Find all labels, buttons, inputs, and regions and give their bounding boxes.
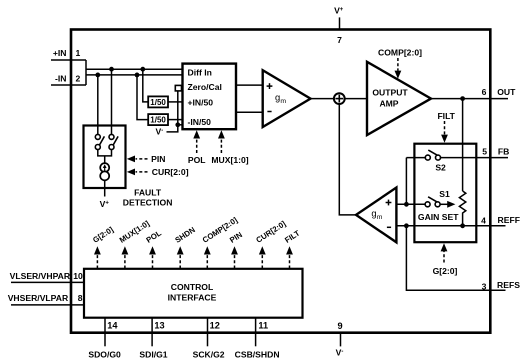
svg-text:Zero/Cal: Zero/Cal [188, 82, 222, 92]
svg-text:-IN/50: -IN/50 [188, 117, 212, 127]
svg-text:10: 10 [73, 271, 83, 281]
wire feedback down [462, 99, 464, 191]
current source I1 [100, 163, 109, 180]
svg-text:G[2:0]: G[2:0] [433, 266, 458, 276]
svg-text:11: 11 [258, 321, 268, 331]
svg-text:Diff In: Diff In [188, 68, 212, 78]
svg-text:7: 7 [337, 35, 342, 45]
svg-text:GAIN SET: GAIN SET [418, 212, 459, 222]
svg-text:COMP[2:0]: COMP[2:0] [378, 48, 422, 58]
op-amp gm1 [263, 70, 311, 127]
svg-text:PIN: PIN [151, 154, 165, 164]
wire V- stub into block [178, 124, 183, 126]
mux block Diff In / Zero/Cal [183, 64, 237, 130]
pin 13 stub [151, 318, 153, 347]
svg-text:5: 5 [482, 147, 487, 157]
control arrow PIN [231, 246, 238, 268]
fault switch A [95, 134, 104, 149]
svg-text:DETECTION: DETECTION [123, 198, 173, 208]
wire current source to V+ [104, 180, 106, 196]
wire gm2 + input [396, 203, 425, 205]
node bus A fault tap [109, 67, 114, 72]
node bus B fault tap [95, 73, 100, 78]
pin 9 stub [340, 333, 342, 346]
op-amp gm2 [356, 188, 396, 243]
control arrow COMP[2:0] [204, 246, 211, 268]
svg-text:VHSER/VLPAR: VHSER/VLPAR [8, 293, 69, 303]
CUR[2:0] arrow [127, 169, 148, 176]
node resistor REFF [460, 223, 465, 228]
label gm1 plus [267, 83, 273, 89]
MUX[1:0] arrow [218, 130, 225, 153]
FILT arrow [441, 121, 448, 143]
svg-text:REFS: REFS [497, 280, 520, 290]
wire bus B to divider 2 [137, 75, 148, 120]
control arrow FILT [286, 246, 293, 268]
switch S2 [406, 150, 440, 160]
control arrow MUX[1:0] [122, 246, 129, 268]
svg-text:-IN: -IN [55, 74, 66, 84]
control arrow SHDN [177, 246, 184, 268]
svg-text:INTERFACE: INTERFACE [168, 292, 217, 302]
node bus B divider tap [135, 73, 140, 78]
svg-text:SDI/G1: SDI/G1 [139, 350, 167, 360]
wire mux to gm1 + [236, 84, 263, 86]
wire divider1 to +IN/50 [168, 101, 183, 103]
svg-text:m: m [280, 98, 286, 105]
node V- junction [175, 122, 180, 127]
wire divider2 to -IN/50 [168, 119, 183, 121]
svg-text:CSB/SHDN: CSB/SHDN [235, 350, 280, 360]
svg-text:VLSER/VHPAR: VLSER/VHPAR [10, 271, 71, 281]
wire summer to output amp [345, 98, 367, 100]
summing node [334, 93, 345, 104]
pin 7 stub [339, 17, 341, 29]
control arrow CUR[2:0] [259, 246, 266, 268]
wire bus B to fault switch [97, 75, 99, 134]
svg-text:OUT: OUT [497, 87, 516, 97]
COMP[2:0] arrow [395, 58, 402, 79]
node OUT feedback [460, 96, 465, 101]
svg-text:POL: POL [188, 155, 206, 165]
svg-text:2: 2 [76, 74, 81, 84]
svg-text:14: 14 [107, 321, 118, 331]
svg-text:1/50: 1/50 [150, 98, 166, 107]
wire mux to gm1 - [236, 111, 263, 113]
svg-text:9: 9 [338, 321, 343, 331]
svg-text:CONTROL: CONTROL [171, 282, 214, 292]
svg-text:m: m [377, 214, 383, 221]
wire summer to gm2 output [339, 104, 356, 215]
svg-text:CUR[2:0]: CUR[2:0] [152, 167, 189, 177]
divider 1/50 box 1 [148, 96, 168, 107]
wire S2 to FB pin [441, 157, 509, 159]
switch S1 [425, 197, 440, 207]
wire Zero/Cal to V- [167, 91, 178, 132]
node gm2 - [404, 223, 409, 228]
svg-text:1/50: 1/50 [150, 116, 166, 125]
control interface box [84, 269, 303, 318]
svg-text:S1: S1 [439, 189, 450, 199]
svg-text:13: 13 [154, 321, 164, 331]
input step wire [85, 60, 87, 85]
label gm1 minus [267, 111, 271, 113]
svg-text:4: 4 [481, 215, 486, 225]
pin 1 +IN wire [51, 59, 86, 61]
node gm2 + [404, 202, 409, 207]
pin 10 wire VLSER/VHPAR [11, 281, 84, 283]
pin 12 stub [207, 318, 209, 347]
chip outline [71, 30, 490, 333]
wire bus B (-IN) [86, 74, 183, 76]
control arrow POL [149, 246, 156, 268]
op-amp U2 OUTPUT AMP [367, 62, 431, 135]
G[2:0] arrow [441, 243, 448, 262]
svg-text:8: 8 [78, 293, 83, 303]
svg-text:FILT: FILT [437, 111, 455, 121]
svg-text:6: 6 [482, 87, 487, 97]
wire bus A to divider 1 [143, 69, 148, 102]
wire bus A (+IN) [86, 68, 183, 70]
label gm2 plus [386, 200, 392, 206]
svg-text:12: 12 [210, 321, 220, 331]
gain set box [414, 144, 476, 243]
divider 1/50 box 2 [148, 114, 168, 125]
wire bus A to fault switch [111, 69, 113, 134]
node bus A divider tap [140, 67, 145, 72]
svg-text:1: 1 [76, 48, 81, 58]
PIN arrow [127, 156, 148, 163]
wire join to current source [104, 156, 106, 163]
label gm2 minus [387, 226, 391, 228]
control arrow G[2:0] [94, 246, 101, 268]
POL arrow [193, 130, 200, 153]
svg-text:+IN: +IN [53, 48, 67, 58]
wire gm1 to summer [311, 98, 335, 100]
resistor gain set [459, 191, 465, 226]
wire S1 wiper arrow [440, 201, 455, 208]
pin 14 stub [104, 318, 106, 347]
svg-text:SDO/G0: SDO/G0 [88, 350, 121, 360]
wire gm2 - REFF [396, 225, 505, 227]
svg-text:SCK/G2: SCK/G2 [193, 350, 225, 360]
wire S2 to gm2 + [405, 158, 407, 205]
Zero/Cal notch [175, 85, 181, 91]
svg-text:FAULT: FAULT [134, 188, 162, 198]
pin 8 wire VHSER/VLPAR [11, 304, 84, 306]
fault switch B [109, 134, 118, 149]
wire REFS feedback [406, 226, 505, 290]
pin 2 -IN wire [51, 84, 86, 86]
svg-text:FB: FB [498, 147, 509, 157]
svg-text:+IN/50: +IN/50 [188, 98, 214, 108]
fault detection box [84, 126, 126, 189]
svg-text:MUX[1:0]: MUX[1:0] [211, 155, 248, 165]
svg-text:S2: S2 [435, 162, 446, 172]
wire fault switches join [98, 150, 112, 156]
wire OUT [431, 98, 508, 100]
svg-text:3: 3 [482, 282, 487, 292]
svg-text:AMP: AMP [379, 99, 398, 109]
svg-text:REFF: REFF [498, 215, 520, 225]
pin 11 stub [255, 318, 257, 347]
svg-text:OUTPUT: OUTPUT [372, 88, 408, 98]
